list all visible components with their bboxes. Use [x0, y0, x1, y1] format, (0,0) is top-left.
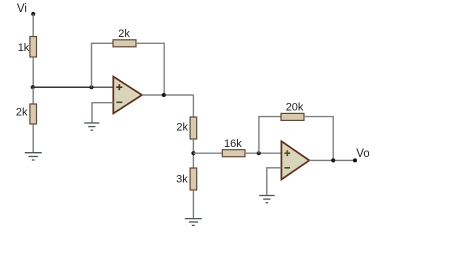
- node B junction feedback: [89, 85, 93, 89]
- svg-text:2k: 2k: [176, 121, 188, 133]
- resistor R5 3k: [190, 168, 197, 190]
- wire U1 minus input to ground: [92, 103, 113, 123]
- wire R6 to U2 plus input: [245, 152, 281, 154]
- ground under R5: [185, 219, 202, 226]
- resistor R6 16k: [222, 150, 245, 157]
- ground at U2 minus: [259, 196, 274, 203]
- wire node A to R2: [32, 87, 34, 104]
- wire U1 output: [142, 94, 194, 96]
- wire output down to R4: [192, 95, 194, 117]
- node C junction output feedback: [162, 93, 166, 97]
- resistor R7 20k: [281, 113, 304, 120]
- node F junction output: [331, 158, 335, 162]
- wire R4 to node D: [192, 139, 194, 168]
- wire feedback left vertical: [92, 43, 114, 87]
- resistor R3 2k feedback: [113, 40, 136, 47]
- wire U2 output to Vo: [309, 159, 355, 161]
- resistor R2 2k: [30, 104, 37, 124]
- op-amp U1: [113, 77, 142, 114]
- wire node B to U1 plus input: [92, 86, 114, 88]
- wire U2 minus input to ground: [267, 168, 282, 196]
- wire node D to R6: [193, 152, 222, 154]
- wire node A to node B dark net: [32, 86, 92, 88]
- svg-text:20k: 20k: [286, 101, 304, 113]
- resistor R1 1k: [30, 37, 37, 58]
- op-amp U2: [281, 141, 309, 179]
- node E junction feedback 2: [257, 151, 261, 155]
- wire R1 to node A: [32, 57, 34, 87]
- resistor R4 2k: [190, 117, 197, 139]
- node D junction: [191, 151, 195, 155]
- wire feedback 2 left vertical: [259, 117, 281, 154]
- svg-text:Vo: Vo: [356, 148, 369, 160]
- wire Vi to R1: [32, 14, 34, 37]
- node A junction: [31, 85, 35, 89]
- svg-text:16k: 16k: [224, 138, 242, 150]
- ground at U1 minus: [84, 123, 99, 130]
- ground under R2: [25, 153, 42, 160]
- node Vi terminal: [31, 12, 35, 16]
- wire feedback 2 right vertical: [304, 117, 333, 161]
- wire feedback right vertical: [136, 43, 164, 95]
- svg-text:3k: 3k: [176, 174, 188, 186]
- node Vo terminal: [353, 158, 357, 162]
- svg-text:2k: 2k: [16, 107, 28, 119]
- wire R5 to ground: [192, 190, 194, 219]
- wire R2 to ground: [32, 125, 34, 153]
- svg-text:1k: 1k: [18, 42, 30, 54]
- svg-text:Vi: Vi: [17, 3, 27, 15]
- svg-text:2k: 2k: [118, 28, 130, 40]
